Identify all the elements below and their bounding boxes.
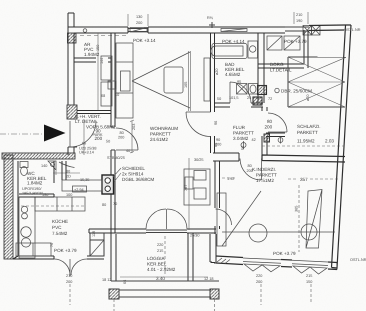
svg-text:66: 66 (123, 280, 127, 284)
svg-text:25/30: 25/30 (190, 234, 200, 238)
svg-text:PARKETT: PARKETT (256, 173, 277, 178)
svg-text:72: 72 (268, 97, 272, 101)
svg-text:42: 42 (252, 138, 256, 142)
svg-text:WOHNRAUM: WOHNRAUM (150, 126, 178, 131)
pier dark bad SE (253, 97, 262, 105)
svg-text:⌀20: ⌀20 (215, 68, 219, 75)
circle mark above AR (83, 29, 87, 33)
wc basin corner (48, 161, 56, 170)
wall entrance left upper (68, 33, 74, 105)
svg-text:BORG: BORG (270, 62, 284, 67)
svg-text:80: 80 (267, 119, 273, 124)
beam DBR box with X (288, 57, 346, 107)
svg-text:80: 80 (120, 131, 124, 135)
svg-text:UK+3.14: UK+3.14 (79, 151, 94, 155)
window top-right with X marks (285, 26, 320, 36)
svg-text:PVC: PVC (52, 225, 62, 230)
wall corner L at loggia right (210, 234, 216, 263)
svg-text:200: 200 (256, 280, 262, 284)
svg-text:200: 200 (247, 169, 253, 173)
dim kinderzimmer windows (256, 274, 312, 305)
svg-text:200: 200 (136, 21, 142, 25)
dim loggia (102, 236, 214, 284)
door arc kitchen entry (59, 162, 75, 168)
svg-text:90: 90 (216, 138, 220, 142)
svg-text:10: 10 (255, 96, 259, 100)
door bad arc (230, 82, 251, 103)
door schlafzimmer arc (268, 113, 287, 132)
loggia right wall (188, 233, 193, 281)
window top W1 130/200 (80, 28, 148, 36)
kinderzimmer wardrobe left (217, 193, 226, 246)
label schiedel with leaders (113, 166, 154, 182)
svg-text:4.01 - 2.92M2: 4.01 - 2.92M2 (147, 267, 176, 272)
kitchen right wall stub (62, 161, 66, 180)
label flur (233, 125, 254, 141)
door kinderzimmer arc (240, 159, 262, 181)
svg-text:25: 25 (247, 96, 251, 100)
label wc (22, 171, 47, 196)
svg-text:215: 215 (157, 249, 163, 253)
label vorraum block (75, 114, 116, 155)
label AR (84, 42, 100, 57)
wc walls (19, 161, 54, 197)
svg-text:165: 165 (184, 82, 188, 88)
svg-text:190: 190 (296, 19, 302, 23)
svg-text:150: 150 (96, 45, 100, 51)
pier kitchen SE with diagonal (90, 240, 104, 256)
label loggia (147, 256, 176, 272)
svg-text:15,35: 15,35 (80, 178, 90, 182)
svg-text:100: 100 (66, 193, 72, 197)
svg-text:K.INDERZI.: K.INDERZI. (252, 167, 276, 172)
label kinderzimmer (252, 167, 308, 183)
svg-text:130: 130 (136, 15, 142, 19)
shelves vorraum (101, 56, 112, 106)
wall flur right (262, 107, 267, 155)
dim 80/200 kinderzimmer door (247, 164, 253, 173)
wall top-left L (68, 13, 129, 43)
svg-text:1.94M2: 1.94M2 (84, 52, 100, 57)
svg-text:12 18: 12 18 (204, 277, 214, 281)
label borg (270, 62, 292, 73)
kinderzimmer tables round (222, 224, 335, 242)
window sill kinderzimmer right 215/150 (292, 260, 328, 274)
svg-text:40: 40 (126, 149, 130, 153)
wall bad right (258, 33, 264, 103)
bad bathtub (211, 44, 248, 59)
label dbr beam (275, 88, 312, 93)
svg-text:200: 200 (66, 280, 72, 284)
wall top over BAD (213, 27, 285, 33)
kinderzimmer diagonal (222, 191, 261, 246)
opening wohnraum-kinderzimmer arc (216, 209, 232, 225)
svg-text:70: 70 (50, 243, 54, 247)
svg-text:200: 200 (265, 125, 273, 130)
svg-text:17.51M2: 17.51M2 (256, 178, 274, 183)
svg-text:365: 365 (295, 206, 299, 212)
svg-text:R⅛: R⅛ (207, 16, 214, 20)
loggia door sill (146, 230, 187, 233)
wall right slanted (332, 25, 352, 268)
svg-text:150: 150 (306, 280, 312, 284)
wall below entrance (68, 147, 74, 155)
kitchen terrace door arcs (54, 259, 87, 276)
wall jamb below schlafzimmer door (266, 133, 285, 137)
wardrobe wohnraum NW (116, 43, 133, 118)
svg-text:30/25: 30/25 (194, 158, 204, 162)
wall top middle (148, 27, 213, 33)
label +2.94 box (73, 186, 87, 192)
svg-text:POK +3.79: POK +3.79 (284, 39, 307, 44)
wall borg bottom (258, 64, 304, 68)
svg-text:80: 80 (248, 164, 252, 168)
svg-text:OSTL.NR: OSTL.NR (344, 28, 361, 32)
svg-text:200: 200 (95, 136, 103, 141)
dim 365 kinderzimmer (295, 185, 300, 252)
loggia left wall (111, 233, 116, 281)
svg-text:OSTL.NR: OSTL.NR (350, 258, 366, 262)
chimney Schiedel (102, 175, 114, 194)
dim line left vertical (96, 33, 104, 110)
svg-text:203: 203 (132, 124, 136, 130)
door wohnraum jambs (111, 127, 115, 150)
svg-text:2.03: 2.03 (325, 139, 334, 144)
kitchen top wall hatched (2, 153, 75, 159)
node cross top (209, 22, 215, 28)
loggia pillar left (109, 289, 119, 299)
dim kitchen door 210/200 (66, 274, 72, 305)
pier at entrance (67, 105, 77, 119)
svg-text:11.95M2: 11.95M2 (297, 139, 315, 144)
svg-text:18 12: 18 12 (102, 278, 112, 282)
dim 90/200 flur door (215, 138, 221, 147)
dim top right 210/190 (294, 12, 308, 24)
door arc wohnraum (116, 128, 138, 150)
wall stub pier to bottom wall (90, 233, 104, 240)
svg-text:FLUR: FLUR (233, 125, 246, 130)
svg-text:2x SIH914: 2x SIH914 (122, 172, 144, 177)
dim 80/200 schlafzimmer door (265, 119, 273, 130)
door flur-wohnraum arc (186, 112, 211, 137)
wall schlafzimmer-kinderzimmer (213, 153, 239, 161)
svg-text:101,5: 101,5 (229, 96, 239, 100)
bad washbasin counter (248, 41, 258, 58)
wall top-right corner (309, 25, 351, 31)
kitchen left outer wall hatched (4, 155, 18, 259)
pier dark flur right (264, 134, 270, 142)
svg-text:220: 220 (256, 274, 262, 278)
wall AR divider (74, 58, 111, 62)
dim line 203 (130, 120, 134, 153)
small box vorraum wall (108, 81, 116, 89)
svg-text:95: 95 (237, 80, 241, 84)
dim line pair wohnraum mid (189, 51, 191, 111)
svg-text:1.92: 1.92 (227, 177, 234, 181)
entrance opening jambs (68, 119, 77, 147)
svg-text:200: 200 (118, 136, 124, 140)
svg-text:UPOR/190/: UPOR/190/ (22, 187, 42, 191)
loggia railing (111, 281, 219, 297)
dim flur top small (217, 96, 272, 101)
svg-text:3.04M2: 3.04M2 (233, 136, 249, 141)
svg-text:357: 357 (300, 177, 308, 182)
wall borg right (304, 30, 308, 68)
svg-text:2D: 2D (66, 175, 71, 179)
dashed lines below pillars (114, 299, 215, 311)
radiator wohnraum east wall (204, 58, 210, 101)
wall bottom kinderzimmer (216, 256, 337, 270)
wall wohnraum right / bad left (211, 33, 220, 234)
svg-text:KER.BEL: KER.BEL (147, 262, 167, 267)
svg-text:150: 150 (42, 193, 48, 197)
dim 357 dashed (288, 178, 340, 180)
loggia french doors arcs (146, 209, 187, 229)
table mid rounded (164, 67, 183, 93)
svg-text:POK +3.79: POK +3.79 (54, 248, 77, 253)
svg-text:SCHIEDEL: SCHIEDEL (122, 166, 145, 171)
bad wm + wc (237, 84, 258, 95)
svg-text:4.65M2: 4.65M2 (225, 72, 241, 77)
wall vorraum top (77, 111, 111, 114)
svg-text:SCHLAFZI.: SCHLAFZI. (297, 124, 320, 129)
dim 767 table (184, 158, 189, 230)
svg-text:195/1,90CM: 195/1,90CM (22, 192, 43, 196)
loggia pillar right (210, 289, 219, 299)
label kueche (52, 219, 68, 236)
wall wohnraum left (111, 33, 115, 233)
kitchen counter bottom (16, 243, 51, 256)
dim top window 130/200 (128, 14, 148, 26)
pier dark bad E (258, 86, 267, 95)
svg-text:KÜCHE: KÜCHE (52, 219, 68, 224)
svg-text:LT. DETAIL: LT. DETAIL (75, 119, 98, 124)
svg-text:68: 68 (101, 94, 105, 98)
kitchen counter left column (19, 197, 35, 258)
svg-text:7.54M2: 7.54M2 (52, 231, 68, 236)
svg-text:10: 10 (115, 93, 119, 97)
svg-text:50: 50 (106, 140, 110, 144)
svg-text:80: 80 (102, 203, 106, 207)
svg-text:STB 40/25: STB 40/25 (107, 156, 125, 160)
svg-text:PARKETT: PARKETT (233, 131, 254, 136)
svg-text:PARKETT: PARKETT (297, 130, 318, 135)
svg-text:210: 210 (296, 13, 302, 17)
kinderzimmer wardrobe right (306, 190, 322, 249)
svg-text:VORB 5.68M2: VORB 5.68M2 (86, 125, 116, 130)
svg-text:215: 215 (306, 274, 312, 278)
label schlafzimmer (297, 124, 334, 144)
svg-text:220: 220 (157, 243, 163, 247)
svg-text:POK +4.14: POK +4.14 (222, 39, 245, 44)
svg-text:118: 118 (92, 231, 96, 237)
svg-text:1.84M2: 1.84M2 (27, 181, 43, 186)
svg-text:POK +3.14: POK +3.14 (133, 38, 156, 43)
borg shelves (267, 36, 300, 50)
svg-text:140: 140 (41, 164, 47, 168)
dim rotated flur left (214, 121, 218, 147)
kitchen counter top row (21, 197, 85, 219)
svg-text:POK +3.79: POK +3.79 (273, 251, 296, 256)
kitchen counter mid (62, 180, 102, 191)
dim kitchen top 150 100 (42, 193, 72, 197)
svg-text:+2.94: +2.94 (74, 188, 84, 192)
svg-text:DBR. 25/60CM: DBR. 25/60CM (281, 89, 312, 94)
svg-text:LOGGIA: LOGGIA (147, 256, 166, 261)
svg-text:24.61M2: 24.61M2 (150, 137, 168, 142)
svg-text:65: 65 (214, 143, 218, 147)
wall wohnraum bottom (89, 229, 216, 233)
svg-text:PARKETT: PARKETT (150, 132, 171, 137)
window sill kinderzimmer left 220/200 (243, 258, 281, 272)
centerline to triangle (0, 133, 42, 135)
svg-text:80: 80 (66, 170, 70, 174)
svg-text:96: 96 (214, 121, 218, 125)
svg-text:⌀20: ⌀20 (306, 94, 310, 101)
marker triangle entrance (44, 125, 66, 142)
wall bad bottom / flur top (215, 103, 264, 107)
dining table wohnraum (184, 169, 210, 205)
projection V lines (132, 52, 190, 108)
lamp symbol schlafzimmer (278, 138, 283, 143)
entrance door arc (70, 121, 96, 147)
label wohnraum (150, 126, 178, 142)
svg-text:767: 767 (184, 185, 188, 191)
wc toilet (20, 162, 28, 176)
label bad (225, 62, 245, 77)
hatch ticks on corner (217, 258, 230, 264)
svg-text:144: 144 (100, 58, 104, 64)
svg-text:LT.DETAIL: LT.DETAIL (270, 68, 292, 73)
dim 2.03 dashed line (262, 145, 344, 147)
lamp symbol flur (241, 141, 246, 149)
svg-text:210: 210 (66, 274, 72, 278)
svg-text:50: 50 (217, 97, 221, 101)
kitchen bottom wall (13, 256, 54, 259)
svg-text:DGBL 36/68CM: DGBL 36/68CM (122, 177, 154, 182)
